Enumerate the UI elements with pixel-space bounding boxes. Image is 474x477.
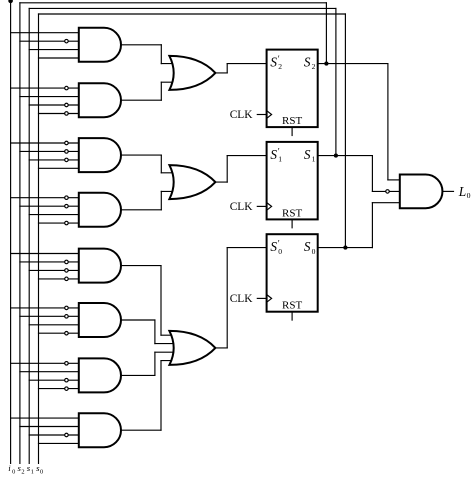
svg-text:CLK: CLK <box>230 109 254 121</box>
svg-text:2: 2 <box>278 62 282 71</box>
svg-text:RST: RST <box>282 300 302 312</box>
svg-text:S: S <box>270 239 277 254</box>
svg-text:0: 0 <box>278 247 282 256</box>
svg-text:L: L <box>458 184 466 199</box>
svg-text:2: 2 <box>312 62 316 71</box>
svg-text:CLK: CLK <box>230 201 254 213</box>
svg-text:S: S <box>304 239 311 254</box>
svg-text:RST: RST <box>282 207 302 219</box>
svg-text:CLK: CLK <box>230 293 254 305</box>
svg-text:RST: RST <box>282 115 302 127</box>
svg-text:1: 1 <box>278 155 282 164</box>
svg-text:S: S <box>304 147 311 162</box>
svg-text:0: 0 <box>312 247 316 256</box>
svg-text:0: 0 <box>467 191 471 200</box>
svg-text:S: S <box>304 55 311 70</box>
svg-text:S: S <box>270 147 277 162</box>
svg-text:2: 2 <box>21 468 24 475</box>
svg-text:0: 0 <box>40 468 43 475</box>
svg-text:0: 0 <box>12 468 15 475</box>
svg-text:S: S <box>270 55 277 70</box>
svg-text:1: 1 <box>31 468 34 475</box>
svg-text:1: 1 <box>312 155 316 164</box>
